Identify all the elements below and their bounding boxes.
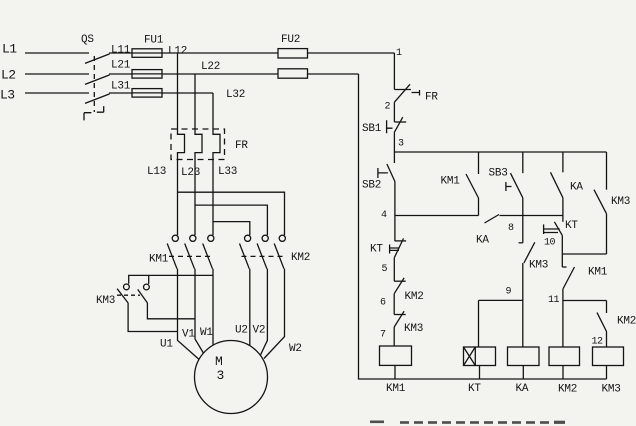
svg-text:KM3: KM3 [611,196,630,208]
svg-text:SB2: SB2 [362,180,381,192]
svg-text:SB3: SB3 [489,168,508,180]
svg-text:1: 1 [396,48,402,59]
svg-text:KM1: KM1 [588,267,608,279]
svg-text:KM3: KM3 [529,260,548,272]
svg-text:L2: L2 [1,68,16,83]
svg-text:L31: L31 [111,81,131,93]
svg-text:2: 2 [385,102,391,113]
svg-text:V1: V1 [182,329,195,341]
svg-text:V2: V2 [253,325,266,337]
svg-text:L3: L3 [0,88,15,103]
svg-text:KM2: KM2 [291,252,310,264]
svg-text:12: 12 [592,337,604,348]
svg-text:SB1: SB1 [362,123,382,135]
svg-text:KM3: KM3 [602,384,621,396]
svg-text:KA: KA [516,383,529,395]
svg-text:8: 8 [508,223,514,234]
svg-text:KM2: KM2 [558,384,577,396]
svg-text:W1: W1 [200,327,213,339]
svg-text:FR: FR [235,140,248,152]
svg-text:9: 9 [506,287,512,298]
svg-text:FU1: FU1 [144,35,164,47]
svg-text:M: M [215,354,222,369]
svg-text:11: 11 [548,295,560,306]
svg-text:KA: KA [476,235,489,247]
svg-text:L32: L32 [226,89,245,101]
svg-text:6: 6 [380,298,386,309]
svg-text:QS: QS [81,34,94,46]
svg-text:L13: L13 [147,166,166,178]
svg-text:3: 3 [217,368,224,383]
svg-text:KM1: KM1 [386,383,406,395]
svg-text:L11: L11 [111,45,131,57]
svg-text:KM2: KM2 [617,316,636,328]
svg-text:L22: L22 [201,61,220,73]
svg-text:KA: KA [570,182,583,194]
svg-text:10: 10 [544,238,556,249]
svg-text:U2: U2 [235,325,248,337]
svg-text:KM3: KM3 [96,295,115,307]
svg-text:W2: W2 [289,343,302,355]
svg-text:KM2: KM2 [405,291,424,303]
svg-text:KT: KT [468,383,481,395]
svg-text:U1: U1 [160,339,173,351]
svg-text:KM1: KM1 [149,254,169,266]
svg-text:L33: L33 [218,166,237,178]
svg-text:7: 7 [380,330,386,341]
svg-text:KM3: KM3 [404,323,423,335]
svg-text:L1: L1 [2,42,17,57]
svg-text:FU2: FU2 [281,34,300,46]
svg-text:KT: KT [370,244,383,256]
svg-text:KT: KT [565,220,578,232]
svg-text:5: 5 [382,264,388,275]
svg-text:L21: L21 [111,60,131,72]
svg-text:FR: FR [425,92,438,104]
svg-text:4: 4 [381,210,387,221]
svg-text:KM1: KM1 [441,176,461,188]
svg-text:L12: L12 [168,46,187,58]
svg-text:L23: L23 [181,167,200,179]
svg-text:3: 3 [398,139,404,150]
